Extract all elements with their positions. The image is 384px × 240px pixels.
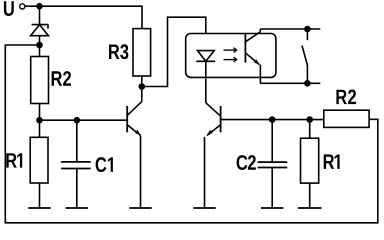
wire Q1 emitter to ground [140,135,142,208]
label R2 right [336,89,356,104]
node base rail left junction [36,117,43,124]
ground R1 right [298,207,322,209]
ground C1 [66,207,88,209]
opto LED [196,51,215,103]
node R3 bottom junction [139,83,146,90]
node R1 right junction [306,116,313,123]
ground Q1 [129,207,151,209]
label C1 [96,157,113,172]
optocoupler U1 box [186,34,276,78]
node zener bottom junction [36,42,43,49]
wire R3 bottom stub [141,76,143,87]
label R3 [109,44,128,59]
label R1 right [324,154,340,168]
wire C1 top stub [76,120,78,162]
opto light arrow 2 [224,57,237,62]
node switch bottom junction [304,80,311,87]
resistor R2 right [324,110,369,127]
label C2 [237,155,256,170]
node C1 junction [74,117,81,124]
wire R1 left to ground [39,183,41,208]
opto phototransistor [245,29,260,83]
label R2 left [52,71,71,86]
ground C2 [261,207,283,209]
wire opto emitter rail [260,82,320,84]
resistor R1 right [301,138,319,183]
wire R3 node to opto LED [142,17,206,86]
wire base rail left [40,119,128,121]
wire base rail right [221,119,324,121]
wire terminal to node [25,5,40,7]
wire C2 bottom stub [271,168,273,209]
wire C1 bottom stub [76,169,78,209]
transistor Q1 [127,87,142,136]
resistor R2 left [31,57,49,104]
node switch top junction [304,26,311,33]
wire R2 bottom to R1 top [39,104,41,138]
wire U node down to zener [39,6,41,24]
node top-left junction [36,3,43,10]
label R1 left [6,153,22,167]
transistor Q2 [205,103,221,208]
label U [4,1,14,16]
wire R1 right to ground [309,183,311,208]
resistor R1 left [30,137,48,183]
wire opto collector rail [260,28,320,30]
terminal U [20,4,25,9]
resistor R3 [133,29,151,76]
ground R1 left [28,207,50,209]
wire C2 top stub [271,120,273,163]
wire R1 right top stub [309,120,311,139]
capacitor C2 [258,162,288,167]
switch S1 [302,29,308,83]
ground Q2 [193,207,215,209]
capacitor C1 [61,162,91,169]
zener diode D1 [31,24,49,56]
wire left feedback loop [5,45,378,223]
wire top rail [40,6,143,28]
opto light arrow 1 [224,48,237,53]
node C2 junction [269,116,276,123]
